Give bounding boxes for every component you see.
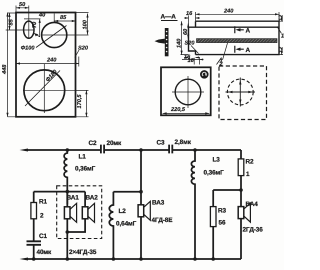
speaker BA1: [66, 192, 68, 207]
dimension 240: [16, 57, 79, 67]
side box outline: [161, 67, 211, 115]
svg-text:0,36мГ: 0,36мГ: [204, 170, 225, 177]
svg-text:А: А: [246, 28, 251, 35]
dashed mirror circle: [227, 79, 253, 105]
position marker circled 1: [201, 71, 208, 78]
input terminal arrow bottom: [20, 258, 29, 261]
dimension 60 section: [187, 24, 189, 39]
dimension 85 top: [54, 13, 76, 26]
leader S20 section: [191, 46, 199, 54]
svg-text:ВА3: ВА3: [152, 200, 165, 207]
node bottom rail junction BA3: [139, 257, 143, 261]
node BA2 bottom junction: [66, 230, 70, 234]
resistor R1: [33, 192, 35, 203]
dimension 12 section top right: [279, 16, 283, 21]
svg-text:40: 40: [38, 13, 46, 19]
node BA1 top junction: [66, 190, 70, 194]
node top rail junction mid: [139, 148, 143, 152]
node R3 junction: [239, 188, 243, 192]
leader S20 panel: [75, 50, 79, 58]
svg-text:А—А: А—А: [161, 14, 177, 21]
svg-text:240: 240: [46, 58, 57, 64]
svg-text:16: 16: [186, 11, 193, 17]
svg-text:1: 1: [203, 73, 206, 79]
svg-text:240: 240: [223, 9, 234, 15]
dimension 140 section: [181, 21, 189, 54]
svg-text:С3: С3: [157, 140, 166, 147]
svg-text:L2: L2: [119, 208, 127, 215]
dimension 448 rotated: [6, 13, 16, 117]
svg-text:S20: S20: [185, 41, 196, 47]
leader 1 side box: [217, 58, 222, 65]
side box hole circle: [175, 79, 201, 105]
dimension 16 section top: [184, 16, 200, 28]
section A-A outline: [189, 21, 280, 54]
svg-text:20мк: 20мк: [107, 140, 123, 147]
node top rail junction L3: [193, 148, 197, 152]
svg-text:R2: R2: [246, 159, 255, 166]
dimension 85 left rotated: [6, 13, 35, 30]
wire R3 tap: [213, 189, 241, 191]
node L1 junction: [66, 148, 70, 152]
dimension 40 oval: [24, 19, 41, 37]
dimension 100 right rotated: [76, 13, 89, 35]
inductor L1: [64, 150, 67, 204]
node L2 junction: [139, 190, 143, 194]
speaker BA3: [140, 192, 142, 205]
section arrow A bottom: [235, 46, 244, 53]
svg-text:2ГД-36: 2ГД-36: [243, 227, 264, 234]
svg-text:50: 50: [19, 2, 26, 8]
svg-text:R3: R3: [218, 208, 227, 215]
wire BA3 chain: [140, 150, 142, 192]
dimension 220,5: [163, 112, 210, 114]
oval hole: [24, 21, 34, 38]
svg-text:ВА4: ВА4: [246, 201, 259, 208]
wire top rail right: [173, 149, 241, 151]
svg-text:12: 12: [279, 46, 284, 53]
dimension 12 section bottom right: [279, 48, 283, 55]
side box hole centerlines: [172, 76, 204, 108]
big circle centerlines: [23, 64, 89, 113]
dimension 50: [16, 6, 29, 13]
big circle D180: [24, 70, 65, 111]
resistor R3: [212, 190, 214, 207]
dimension 170,5 rotated: [76, 90, 89, 117]
svg-text:56: 56: [219, 220, 226, 227]
svg-text:Ф100: Ф100: [21, 45, 36, 51]
dimension 16 section bottom: [184, 57, 200, 59]
wire node to BA2: [34, 191, 85, 193]
svg-text:16: 16: [184, 55, 191, 61]
svg-text:L1: L1: [79, 154, 87, 161]
svg-text:S20: S20: [78, 46, 89, 52]
node bottom rail junction L3: [193, 257, 197, 261]
front panel outline: [16, 13, 76, 117]
inductor L3: [191, 150, 195, 259]
svg-text:220,5: 220,5: [170, 107, 186, 113]
dimension 16 side box: [182, 58, 204, 65]
speaker BA4: [238, 207, 244, 219]
node bottom rail junction L2: [112, 257, 116, 261]
svg-text:L3: L3: [213, 157, 221, 164]
capacitor C2: [101, 145, 104, 154]
svg-text:1: 1: [246, 171, 250, 178]
svg-text:170,5: 170,5: [77, 94, 83, 109]
leader D100 diagonal: [36, 26, 67, 48]
oval center line vertical: [28, 6, 30, 39]
capacitor C3: [169, 145, 172, 154]
batten detail bar: [165, 28, 169, 56]
svg-text:1: 1: [220, 58, 223, 64]
svg-text:12: 12: [279, 14, 284, 21]
batten hatched strip: [197, 39, 278, 43]
svg-text:2,8мк: 2,8мк: [175, 139, 192, 146]
svg-text:1: 1: [281, 34, 284, 40]
dashed group box BA1 BA2: [57, 186, 102, 239]
svg-text:0,36мГ: 0,36мГ: [75, 166, 96, 173]
wire top rail: [26, 149, 100, 151]
svg-text:ВА2: ВА2: [86, 195, 99, 202]
svg-text:60: 60: [183, 28, 189, 35]
svg-text:2: 2: [40, 213, 44, 220]
leader 2 section: [223, 43, 228, 60]
speaker BA2: [84, 192, 86, 207]
mirror circle cross: [226, 78, 256, 107]
svg-text:448: 448: [2, 64, 8, 75]
batten detail arrow: [155, 39, 165, 44]
node bottom rail junction BA1: [66, 257, 70, 261]
leader D180 diagonal: [25, 71, 60, 107]
svg-text:70: 70: [32, 21, 38, 28]
svg-text:2×4ГД-35: 2×4ГД-35: [69, 249, 97, 256]
svg-text:ВА1: ВА1: [67, 195, 80, 202]
resistor R2: [240, 150, 242, 159]
node bottom rail junction R3: [211, 257, 215, 261]
leader 1 section: [277, 27, 282, 34]
wire top rail mid: [105, 149, 169, 151]
svg-text:40мк: 40мк: [37, 249, 53, 256]
capacitor C1: [33, 219, 35, 241]
wire L2 tap: [113, 191, 141, 193]
wire bottom rail: [26, 258, 241, 260]
svg-text:85: 85: [9, 18, 15, 25]
dimension 240 section: [196, 12, 280, 21]
dashed mirror box: [219, 66, 267, 120]
svg-text:100: 100: [82, 19, 88, 29]
section arrow A top: [235, 26, 244, 33]
svg-text:С1: С1: [39, 233, 48, 240]
svg-text:140: 140: [176, 38, 182, 48]
svg-text:4ГД-8Е: 4ГД-8Е: [152, 217, 174, 224]
input terminal arrow top: [20, 149, 29, 152]
svg-text:А: А: [246, 47, 251, 54]
svg-text:0,64мГ: 0,64мГ: [116, 221, 137, 228]
circle hole D100: [42, 22, 67, 47]
inductor L2: [109, 192, 113, 259]
svg-text:R1: R1: [39, 199, 48, 206]
node bottom rail junction C1: [32, 257, 36, 261]
svg-text:85: 85: [60, 15, 67, 21]
circle centerlines: [42, 14, 89, 36]
wire BA1 to bottom rail: [66, 232, 68, 259]
svg-text:С2: С2: [89, 140, 98, 147]
